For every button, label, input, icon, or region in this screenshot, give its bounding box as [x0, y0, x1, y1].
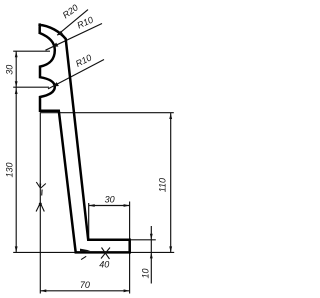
arrow 10 lower (up, outside) — [150, 252, 153, 258]
arrow 10 upper (down, outside) — [150, 234, 153, 240]
wire extension line x88.7 — [88, 203, 90, 239]
wire left dimension line x16 — [15, 51, 17, 252]
svg-text:30: 30 — [105, 194, 115, 204]
svg-text:70: 70 — [80, 280, 90, 290]
break arrow filled upper — [39, 184, 41, 189]
wire extension line y51 — [13, 50, 50, 52]
tick 40 cross X — [101, 248, 110, 259]
arrow 110 top (up) — [169, 113, 172, 119]
arrow 130 bottom (down) — [15, 246, 18, 252]
wire extension line bottom y252 — [13, 251, 174, 253]
break arrow filled lower — [39, 203, 42, 206]
svg-text:40: 40 — [99, 259, 109, 269]
arrow leader R10 upper — [52, 43, 58, 47]
wire extension line x40 — [39, 112, 41, 293]
svg-text:30: 30 — [4, 65, 14, 75]
tick 40 left slash — [81, 256, 86, 259]
wire dimension line 110 — [170, 113, 172, 252]
arrow leader R10 lower — [53, 82, 59, 86]
arrow chain down at y87 — [15, 81, 18, 87]
wire leader R10 lower — [48, 60, 104, 89]
arrow 40 (points right) — [80, 249, 90, 253]
wire dimension line 70 — [40, 290, 129, 292]
arrow 70 left — [40, 289, 46, 292]
arrow chain up at y87 — [15, 88, 18, 94]
svg-text:10: 10 — [140, 268, 150, 278]
arrow 30-right right — [124, 204, 130, 207]
break mark upper on x40 — [36, 182, 40, 188]
profile outline — [38, 23, 129, 252]
break mark lower on x40 — [36, 203, 40, 212]
wire leader R20 — [57, 10, 88, 36]
wire extension line y239.8 right — [131, 239, 156, 241]
wire extension line y112.7 — [40, 112, 174, 114]
wire dimension line 30 right — [89, 205, 130, 207]
svg-text:110: 110 — [158, 178, 168, 192]
arrow leader R20 — [57, 31, 63, 36]
arrow 70 right — [124, 289, 130, 292]
wire leader R10 upper — [46, 24, 103, 51]
arrow 30-left top (up) — [15, 51, 18, 57]
arrow 30-right left — [89, 204, 95, 207]
wire extension line y87 — [13, 86, 49, 88]
svg-text:130: 130 — [4, 162, 14, 177]
arrow 110 bottom (down) — [169, 246, 172, 252]
wire dimension line 10 — [150, 226, 152, 284]
wire extension line x129.6 — [129, 202, 131, 294]
